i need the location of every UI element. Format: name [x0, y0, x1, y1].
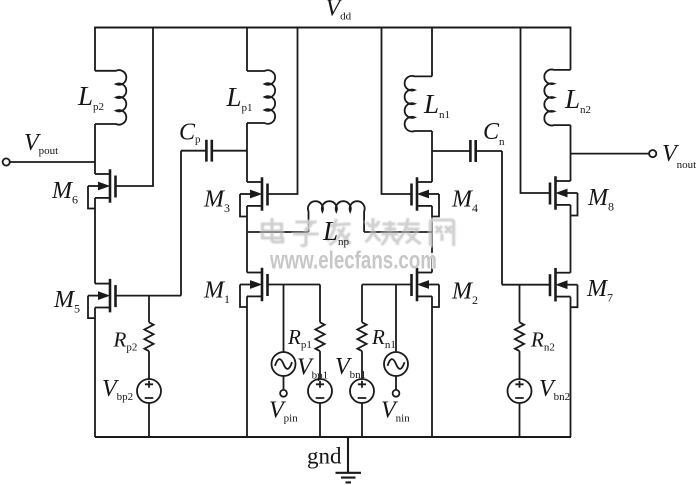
wire M1 gate lead	[268, 284, 321, 286]
inductor L_n1	[405, 76, 432, 132]
wire R_n1 to V_bn1	[361, 351, 363, 379]
source V_bn2	[508, 379, 532, 403]
terminal V_pout	[10, 161, 95, 163]
wire M1 gate to R_p1	[319, 285, 321, 323]
watermark character 4	[366, 218, 399, 245]
wire M7 source to ground rail	[570, 297, 572, 437]
resistor R_p2	[144, 322, 153, 351]
wire V_nin drop from M2 gate	[395, 285, 397, 353]
inductor L_p1	[247, 70, 275, 124]
source V_bp2	[137, 379, 161, 403]
wire M5 gate to R_p2	[148, 296, 150, 323]
wire right outer branch top	[570, 27, 572, 70]
wire C_p left plate down to M5 gate	[180, 151, 182, 296]
transistor M4 (mirrored)	[412, 177, 440, 216]
wire Vdd top rail	[95, 26, 571, 28]
wire V_bn2 to ground rail	[519, 403, 521, 437]
inductor L_p2	[95, 70, 126, 125]
ground symbol	[336, 437, 362, 482]
source V_bn1	[350, 379, 374, 403]
wire M7 gate to R_n2	[519, 285, 521, 323]
wire R_p2 to V_bp2	[148, 351, 150, 379]
wire left outer branch mid	[94, 124, 96, 174]
wire M8 gate to Vdd	[521, 28, 551, 194]
watermark character 6	[430, 220, 453, 246]
wire M2 source to ground rail	[431, 296, 433, 437]
wire C_n right plate down to M7 gate	[501, 151, 503, 285]
wire V_bn1 to ground rail	[361, 403, 363, 437]
wire V_bp1 to ground rail	[319, 403, 321, 437]
capacitor C_n	[432, 150, 502, 152]
resistor R_p1	[315, 322, 324, 351]
terminal V_nin	[393, 390, 400, 397]
capacitor C_p	[181, 150, 247, 152]
inductor L_np	[308, 201, 365, 232]
wire right outer branch mid	[570, 125, 572, 181]
wire M1 source to ground rail	[246, 296, 248, 437]
transistor M5	[88, 279, 116, 318]
wire M4 gate to Vdd	[382, 28, 412, 195]
wire R_n2 to V_bn2	[519, 351, 521, 379]
wire M6 source to M5 drain	[94, 198, 96, 284]
resistor R_n1	[357, 322, 366, 351]
wire V_bp2 to ground rail	[148, 403, 150, 437]
wire M3 gate to Vdd	[268, 28, 298, 195]
wire R_p1 to V_bp1	[319, 351, 321, 379]
wire inner-right branch to M4 drain (C_n junction)	[431, 131, 433, 182]
wire M2 gate to R_n1	[361, 285, 363, 323]
source V_bp1	[308, 379, 332, 403]
wire AC to V_nin terminal	[395, 376, 397, 390]
wire M6 gate to Vdd	[117, 28, 154, 187]
watermark character 3	[327, 219, 350, 245]
svg-text:gnd: gnd	[307, 444, 342, 469]
watermark row 2: www.elecfans.com	[268, 245, 437, 274]
transistor M2 (mirrored)	[412, 268, 440, 307]
terminal V_nout	[571, 153, 650, 155]
watermark character 2	[293, 222, 319, 246]
wire M4 source to M2 drain	[431, 206, 433, 273]
wire left outer branch top	[94, 27, 96, 71]
wire M3 source to M1 drain	[246, 206, 248, 273]
transistor M3	[240, 177, 268, 216]
wire L_np line seen through watermark	[247, 231, 432, 233]
source V_nin AC	[384, 352, 408, 376]
wire inner-left branch to M3 drain (C_p junction)	[246, 123, 248, 182]
wire ground rail	[95, 436, 571, 438]
resistor R_n2	[515, 322, 524, 351]
wire M2 gate lead	[362, 284, 412, 286]
wire inner-right branch top	[431, 27, 433, 77]
watermark row 1: stylized characters	[262, 218, 453, 246]
wire inner-left branch top	[246, 27, 248, 72]
transistor M8 (mirrored)	[550, 176, 578, 215]
wire L_np right segment	[364, 231, 432, 233]
wire V_pin drop from M1 gate	[283, 285, 285, 353]
source V_pin AC	[272, 352, 296, 376]
watermark character 1	[262, 218, 282, 242]
watermark character 5	[396, 218, 420, 244]
inductor L_n2	[544, 70, 570, 126]
wire M7 gate lead	[502, 284, 550, 286]
wire M5 source to ground rail	[94, 308, 96, 438]
wire M8 source to M7 drain	[570, 205, 572, 273]
terminal V_pin	[280, 390, 287, 397]
transistor M6	[88, 169, 116, 208]
wire M5 gate lead	[117, 295, 182, 297]
transistor M1	[240, 268, 268, 307]
wire L_np left segment	[247, 231, 309, 233]
svg-text:www.elecfans.com: www.elecfans.com	[269, 246, 437, 274]
wire AC to V_pin terminal	[283, 376, 285, 390]
transistor M7 (mirrored)	[550, 268, 578, 307]
